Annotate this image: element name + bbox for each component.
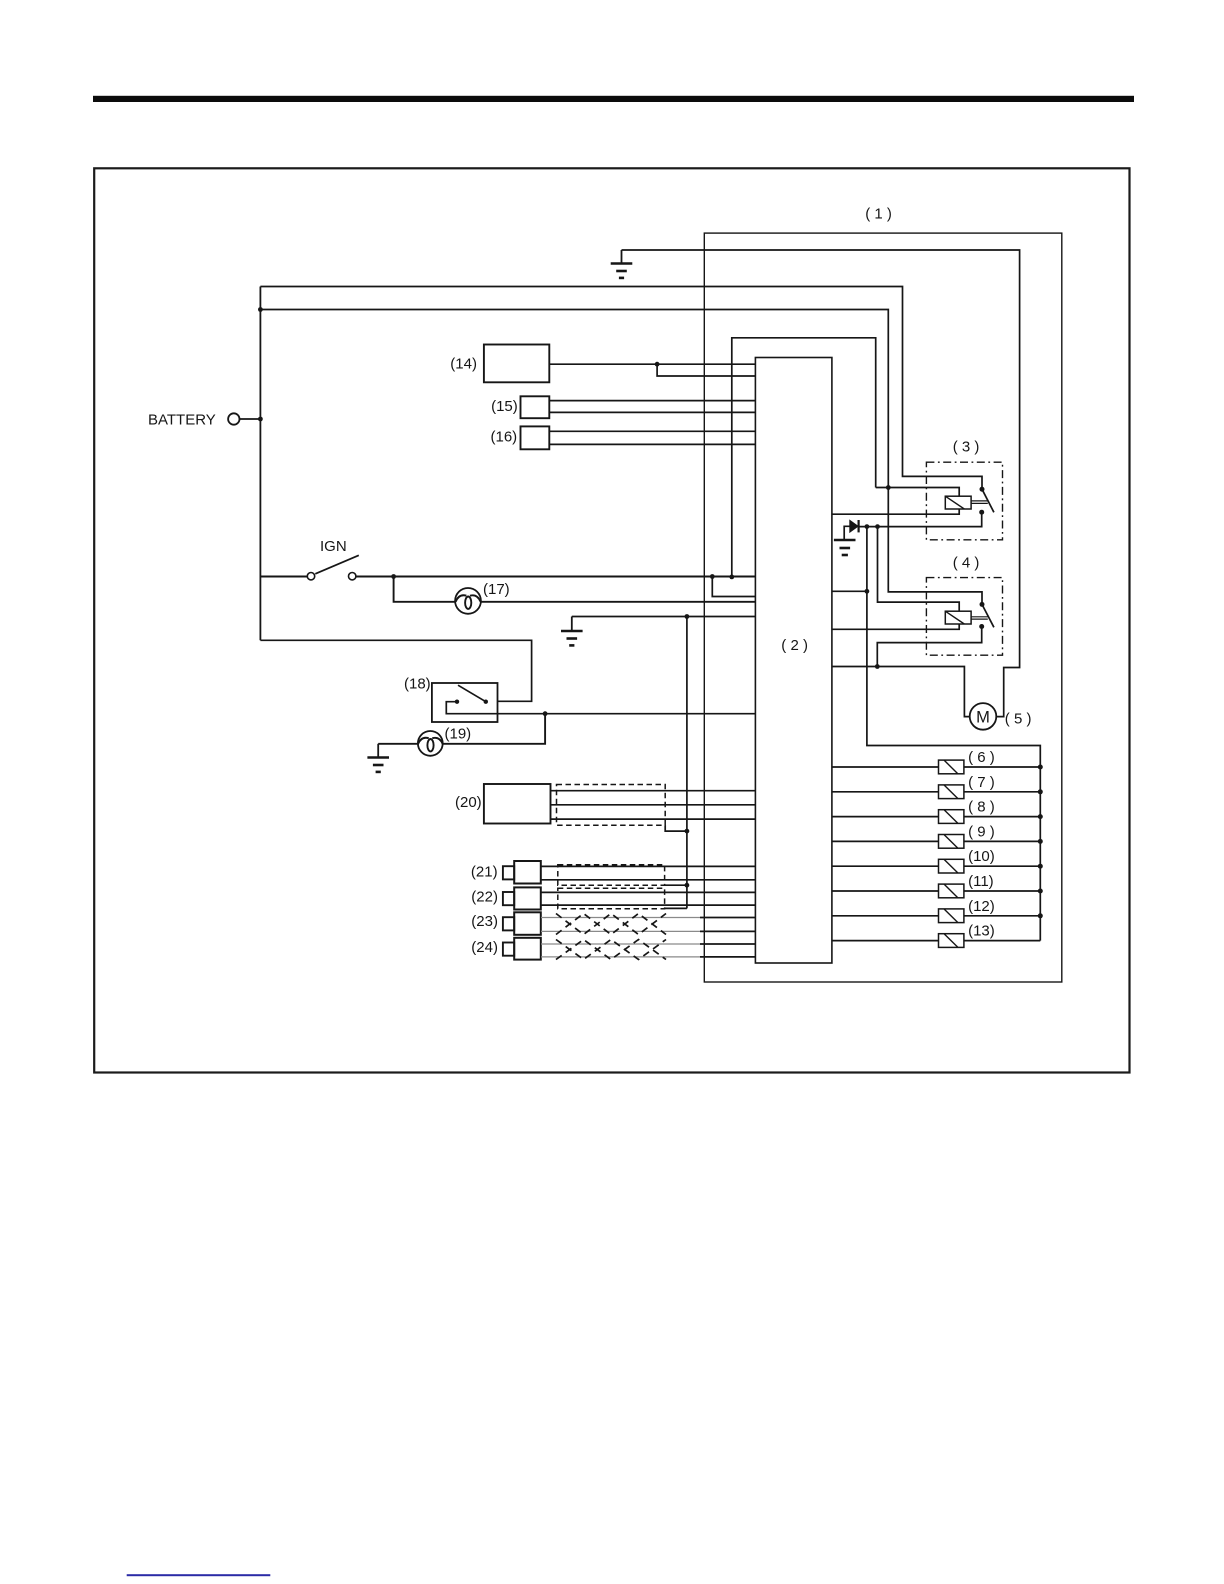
svg-text:( 3 ): ( 3 ) [953,439,980,456]
svg-text:( 9 ): ( 9 ) [968,823,995,840]
svg-text:( 8 ): ( 8 ) [968,799,995,816]
svg-text:(21): (21) [471,864,498,881]
svg-text:(11): (11) [968,873,994,890]
svg-text:( 6 ): ( 6 ) [968,749,995,766]
svg-text:( 7 ): ( 7 ) [968,774,995,791]
svg-text:BATTERY: BATTERY [148,412,216,429]
svg-text:(15): (15) [491,398,518,415]
svg-text:IGN: IGN [320,538,347,555]
svg-text:(16): (16) [491,428,518,445]
svg-text:(23): (23) [471,913,498,930]
svg-text:(10): (10) [968,848,995,865]
svg-text:(24): (24) [471,939,498,956]
svg-text:(20): (20) [455,794,482,811]
svg-text:M: M [976,708,990,726]
svg-text:(22): (22) [471,889,498,906]
svg-text:( 2 ): ( 2 ) [781,637,808,654]
svg-text:(17): (17) [483,581,510,598]
svg-text:( 4 ): ( 4 ) [953,554,980,571]
svg-text:(14): (14) [450,356,477,373]
svg-text:(13): (13) [968,923,995,940]
svg-text:(18): (18) [404,675,431,692]
svg-text:( 1 ): ( 1 ) [865,206,892,223]
svg-text:( 5 ): ( 5 ) [1005,711,1032,728]
svg-text:(19): (19) [445,726,472,743]
svg-text:(12): (12) [968,898,995,915]
